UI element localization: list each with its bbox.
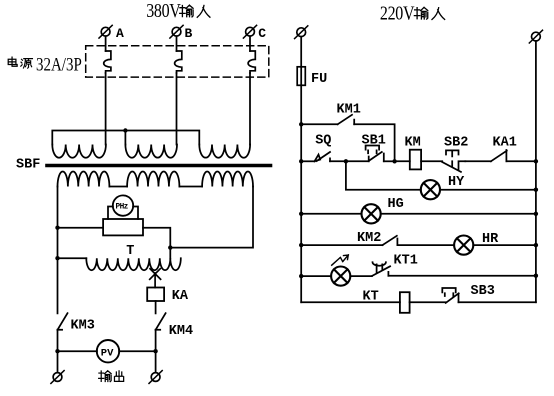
wire output rail right <box>119 350 155 352</box>
wire left bus upper <box>57 187 59 314</box>
output terminal left <box>51 371 64 384</box>
wire right bus <box>535 41 537 302</box>
node junction <box>168 245 172 249</box>
svg-text:KM1: KM1 <box>337 103 361 118</box>
lamp HG <box>362 197 404 223</box>
meter PHz <box>108 195 138 219</box>
svg-text:KM3: KM3 <box>71 319 95 334</box>
wire KT to SB3 <box>410 301 446 303</box>
contact KM2 <box>357 231 397 246</box>
wire box to right drop <box>143 228 170 248</box>
svg-text:KA1: KA1 <box>493 136 517 151</box>
autotransformer T winding <box>86 258 181 270</box>
wire HR to bus <box>473 244 536 246</box>
title 220V input <box>380 2 445 24</box>
pushbutton SB1 <box>362 134 386 162</box>
wire coil to SB2 <box>421 160 442 162</box>
wire output rail left <box>58 350 97 352</box>
wire SQ to node <box>330 160 346 162</box>
node KM2 left <box>299 243 303 247</box>
transformer SBF primary winding 2 <box>125 145 177 158</box>
wire HG row left <box>301 213 361 215</box>
wire L1 down to fuse <box>300 37 302 67</box>
svg-text:SBF: SBF <box>16 158 40 173</box>
node T lead <box>55 256 59 260</box>
svg-text:SB2: SB2 <box>444 136 468 151</box>
resistor box <box>103 219 143 235</box>
fuse FU <box>297 67 327 87</box>
wire SB1 to node <box>384 160 395 162</box>
transformer SBF secondary winding 3 <box>202 172 253 187</box>
label power 32A/3P <box>8 54 82 75</box>
flashing lamp <box>331 255 350 286</box>
node flash right <box>534 274 538 278</box>
terminal A <box>99 25 124 41</box>
relay coil KA <box>147 288 189 305</box>
wire secondary right drop <box>170 187 253 248</box>
wire SB2 to KA1 <box>465 160 491 162</box>
svg-text:KA: KA <box>172 289 189 304</box>
svg-text:KM2: KM2 <box>357 231 381 246</box>
wire rung start <box>301 160 314 162</box>
svg-text:PHz: PHz <box>116 204 129 212</box>
node HG right <box>534 212 538 216</box>
svg-text:SB1: SB1 <box>362 134 386 149</box>
wire SB3 to bus <box>459 301 536 303</box>
wire to output terminal right <box>155 351 157 372</box>
title 380V input <box>146 0 210 22</box>
svg-text:C: C <box>258 26 266 41</box>
node on bar <box>123 128 127 132</box>
transformer SBF primary winding 1 <box>52 145 106 158</box>
wire phase A <box>105 36 107 51</box>
terminal C <box>243 25 266 41</box>
svg-text:B: B <box>185 26 193 41</box>
contact KA1 <box>491 136 517 162</box>
wire phase A lower <box>105 73 107 145</box>
svg-text:HG: HG <box>388 197 404 212</box>
wire T winding left lead <box>58 257 87 259</box>
svg-text:A: A <box>116 26 124 41</box>
wire node to coil <box>395 160 410 162</box>
wire to output terminal left <box>57 351 59 372</box>
wire rail to resistor box <box>58 227 104 229</box>
breaker QF pole A <box>104 51 111 73</box>
wire node to SB1 <box>346 160 369 162</box>
svg-text:KM4: KM4 <box>169 324 193 339</box>
breaker QF pole C <box>248 51 255 73</box>
wire primary top bar <box>52 131 199 145</box>
lamp HR <box>454 232 499 255</box>
label output <box>99 371 124 382</box>
svg-text:KT1: KT1 <box>394 254 418 269</box>
svg-text:T: T <box>126 244 134 259</box>
node rail right <box>153 349 157 353</box>
terminal B <box>170 25 193 41</box>
wire phase C lower <box>249 73 251 145</box>
wire left bus <box>300 85 302 302</box>
contact KM1 branch <box>299 103 395 162</box>
node left bus rail <box>55 226 59 230</box>
meter PV <box>97 340 119 362</box>
svg-text:KT: KT <box>363 290 379 305</box>
wire node down to T winding <box>169 248 171 259</box>
svg-text:PV: PV <box>101 348 114 360</box>
node flash left <box>299 274 303 278</box>
svg-text:HY: HY <box>448 175 465 190</box>
wire HG to bus <box>381 213 536 215</box>
wire KM2 row left <box>301 244 382 246</box>
output terminal right <box>149 371 162 384</box>
node HR right <box>534 243 538 247</box>
terminal L2 <box>529 30 542 43</box>
pushbutton SB2 <box>442 136 468 172</box>
terminal L1 <box>295 26 308 39</box>
node KM1 joins <box>392 159 396 163</box>
wire bottom row left <box>301 301 400 303</box>
wire KT1 to bus <box>388 275 536 277</box>
svg-text:FU: FU <box>311 72 327 87</box>
node HG left <box>299 212 303 216</box>
node HY right <box>534 188 538 192</box>
lamp HY <box>421 175 465 199</box>
contactor coil KM <box>405 136 422 170</box>
transformer SBF primary winding 3 <box>199 145 250 158</box>
svg-text:220V: 220V <box>380 2 415 24</box>
wire HY branch <box>346 161 421 189</box>
transformer SBF secondary winding 1 <box>58 172 110 187</box>
wire KA1 to bus <box>506 160 536 162</box>
wire HY to bus <box>440 189 536 191</box>
wire KM4 to rail <box>155 330 157 351</box>
transformer SBF core <box>47 164 271 168</box>
svg-text:KM: KM <box>405 136 421 151</box>
pushbutton SB3 <box>442 284 495 303</box>
wire flash row left <box>301 275 331 277</box>
breaker QF pole B <box>175 51 182 73</box>
svg-text:SB3: SB3 <box>471 284 495 299</box>
wire KM2 to HR <box>397 244 454 246</box>
node rung left <box>299 159 303 163</box>
dashed enclosure box <box>86 46 269 77</box>
wire phase C <box>249 36 251 51</box>
limit switch SQ <box>315 134 332 162</box>
wire KM3 to rail <box>57 330 59 351</box>
node HY tap <box>344 159 348 163</box>
time contact KT1 <box>372 254 418 277</box>
transformer SBF secondary winding 2 <box>127 171 179 186</box>
wire lamp to KT1 <box>350 275 372 277</box>
svg-text:32A/3P: 32A/3P <box>36 54 82 75</box>
contact KM3 <box>58 313 95 333</box>
wire secondary connector 2 <box>179 186 202 188</box>
wire KA to KM4 <box>155 301 157 313</box>
tap arrow <box>150 269 161 288</box>
svg-text:SQ: SQ <box>315 134 331 149</box>
timer coil KT <box>363 290 410 313</box>
wire secondary connector 1 <box>109 186 127 188</box>
node rung right <box>534 159 538 163</box>
wire phase B <box>176 36 178 51</box>
svg-text:380V: 380V <box>146 0 181 22</box>
contact KM4 <box>156 313 194 339</box>
node rail left <box>55 349 59 353</box>
wire phase B lower <box>176 73 178 145</box>
